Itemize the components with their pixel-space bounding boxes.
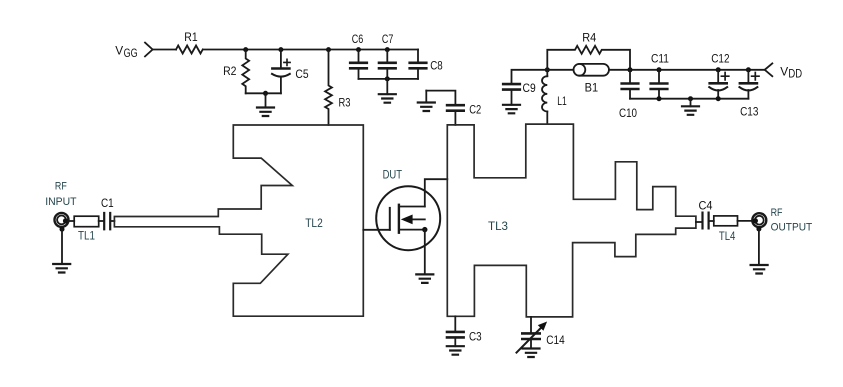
wire TL4 to output connector (738, 220, 753, 222)
wire connector to TL1 (68, 220, 74, 222)
ground (C14) (523, 349, 540, 358)
node R3 junction (326, 47, 331, 52)
transmission line TL2 (microstrip) (114, 125, 363, 316)
node VDD label (780, 65, 802, 81)
capacitor C11 (651, 52, 669, 99)
svg-text:C6: C6 (352, 32, 364, 46)
wire TL3 stub to C4 (696, 221, 702, 223)
node R2 junction (243, 47, 248, 52)
node C10 junction (628, 67, 633, 72)
wire rail to bead B1 (547, 69, 573, 71)
ferrite bead B1 (574, 64, 609, 95)
svg-text:TL3: TL3 (488, 219, 508, 233)
wire TL1 to C1 (99, 220, 104, 222)
svg-text:C14: C14 (546, 333, 565, 347)
node VGG label (115, 44, 137, 60)
capacitor C2 (447, 103, 481, 125)
wire C6/C7/C8 bottom rail (359, 78, 419, 80)
svg-text:C13: C13 (740, 104, 758, 118)
svg-text:RF: RF (55, 181, 67, 193)
node C12 bottom junction (716, 96, 721, 101)
capacitor C3 (447, 316, 482, 346)
svg-text:R2: R2 (223, 64, 237, 78)
svg-text:TL2: TL2 (305, 216, 323, 230)
wire TL2 to DUT gate (363, 229, 390, 231)
wire R2/C5 bottom (246, 92, 281, 94)
wire C10..C13 bottom rail (630, 98, 748, 100)
node ground junction R2/C5 (263, 91, 268, 96)
ground (C2 branch) (418, 91, 435, 111)
transmission line TL4 (714, 216, 738, 243)
svg-text:R1: R1 (184, 30, 198, 44)
svg-text:R4: R4 (582, 31, 596, 45)
variable capacitor C14 (517, 317, 565, 353)
resistor R1 (176, 30, 203, 53)
inductor L1 (542, 70, 567, 124)
svg-text:C10: C10 (619, 106, 637, 120)
svg-text:OUTPUT: OUTPUT (771, 222, 813, 234)
svg-text:B1: B1 (585, 81, 599, 95)
capacitor C8 (410, 50, 443, 79)
svg-text:INPUT: INPUT (45, 196, 77, 208)
svg-text:C4: C4 (699, 199, 713, 213)
node C6 junction (356, 47, 361, 52)
capacitor C12 (polarized) (709, 52, 729, 99)
ground (C6/C7/C8) (379, 79, 396, 103)
svg-text:TL1: TL1 (78, 229, 95, 243)
svg-text:R3: R3 (339, 96, 351, 110)
svg-text:C12: C12 (711, 52, 729, 66)
svg-text:C3: C3 (469, 330, 482, 344)
node ground junction VDD rail (688, 96, 693, 101)
capacitor C13 (polarized) (739, 70, 759, 119)
svg-text:L1: L1 (557, 94, 567, 108)
output coax connector (752, 213, 766, 231)
ground (R2/C5) (257, 93, 274, 116)
node C5 junction (278, 47, 283, 52)
ground (DUT source) (416, 274, 433, 283)
svg-text:C9: C9 (523, 81, 536, 95)
capacitor C10 (619, 70, 638, 120)
VGG source arrow (145, 43, 153, 57)
ground (RF input) (53, 229, 70, 272)
ground (C9) (503, 105, 520, 114)
ground (C3) (447, 346, 464, 355)
wire R1 to C8 branch (top gate rail) (203, 49, 418, 51)
svg-text:GG: GG (124, 46, 138, 60)
capacitor C1 (101, 196, 114, 229)
node L1/C9/R4 junction (545, 67, 550, 72)
wire C2 top bracket (426, 91, 455, 104)
resistor R2 (223, 50, 249, 94)
svg-text:C1: C1 (101, 196, 114, 210)
transmission line TL1 (74, 216, 99, 243)
node RF OUTPUT label (771, 207, 813, 234)
node ground junction C7 (385, 76, 390, 81)
svg-text:TL4: TL4 (719, 229, 736, 243)
capacitor C4 (699, 199, 714, 229)
input coax connector (55, 213, 69, 232)
wire VGG to R1 (153, 49, 176, 51)
node C7 junction (385, 47, 390, 52)
svg-text:C8: C8 (430, 59, 443, 73)
ground (RF output) (751, 229, 768, 274)
svg-text:C11: C11 (651, 52, 669, 66)
wire bead to VDD arrow (609, 69, 765, 71)
node C11 top junction (657, 67, 662, 72)
VDD source arrow (765, 63, 773, 76)
capacitor C5 (polarized) (272, 50, 309, 94)
svg-text:C5: C5 (295, 67, 308, 81)
capacitor C9 (503, 81, 536, 105)
svg-text:RF: RF (771, 207, 783, 219)
wire node to C9 (512, 70, 548, 83)
capacitor C6 (350, 32, 367, 79)
node C12 top junction (716, 67, 721, 72)
resistor R3 (325, 50, 351, 126)
transmission line TL3 (microstrip) (447, 124, 696, 317)
svg-text:DD: DD (788, 67, 802, 81)
svg-text:DUT: DUT (383, 168, 403, 182)
resistor R4 (547, 31, 630, 70)
svg-text:V: V (115, 44, 124, 58)
node C13 top junction (746, 67, 751, 72)
ground (VDD decoupling) (682, 99, 699, 115)
node C11 bottom junction (657, 96, 662, 101)
transistor DUT (MOSFET) (376, 168, 447, 275)
svg-text:C2: C2 (469, 103, 481, 117)
capacitor C7 (379, 32, 396, 79)
svg-text:C7: C7 (382, 32, 394, 46)
node RF INPUT label (45, 181, 77, 208)
